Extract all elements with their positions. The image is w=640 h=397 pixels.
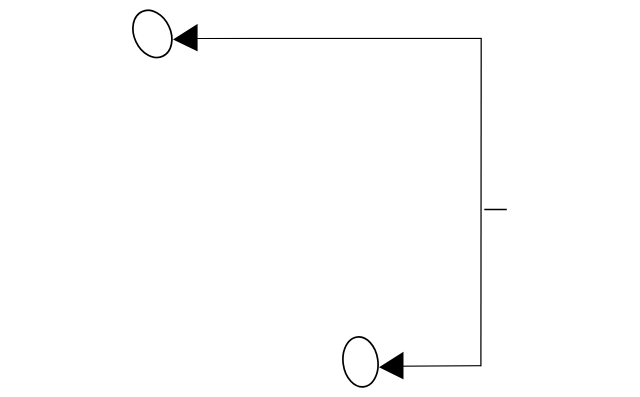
tick mark on vertical wire [484, 209, 507, 211]
arrowhead into node A [173, 24, 198, 52]
wire : bottom horizontal segment [404, 365, 482, 368]
arrowhead into node B [379, 352, 404, 380]
node A : tilted ellipse (top left) [126, 4, 180, 64]
node B : slightly tilted ellipse (bottom) [340, 335, 381, 390]
wire : vertical segment [480, 38, 482, 366]
wire : top horizontal segment [198, 37, 482, 39]
